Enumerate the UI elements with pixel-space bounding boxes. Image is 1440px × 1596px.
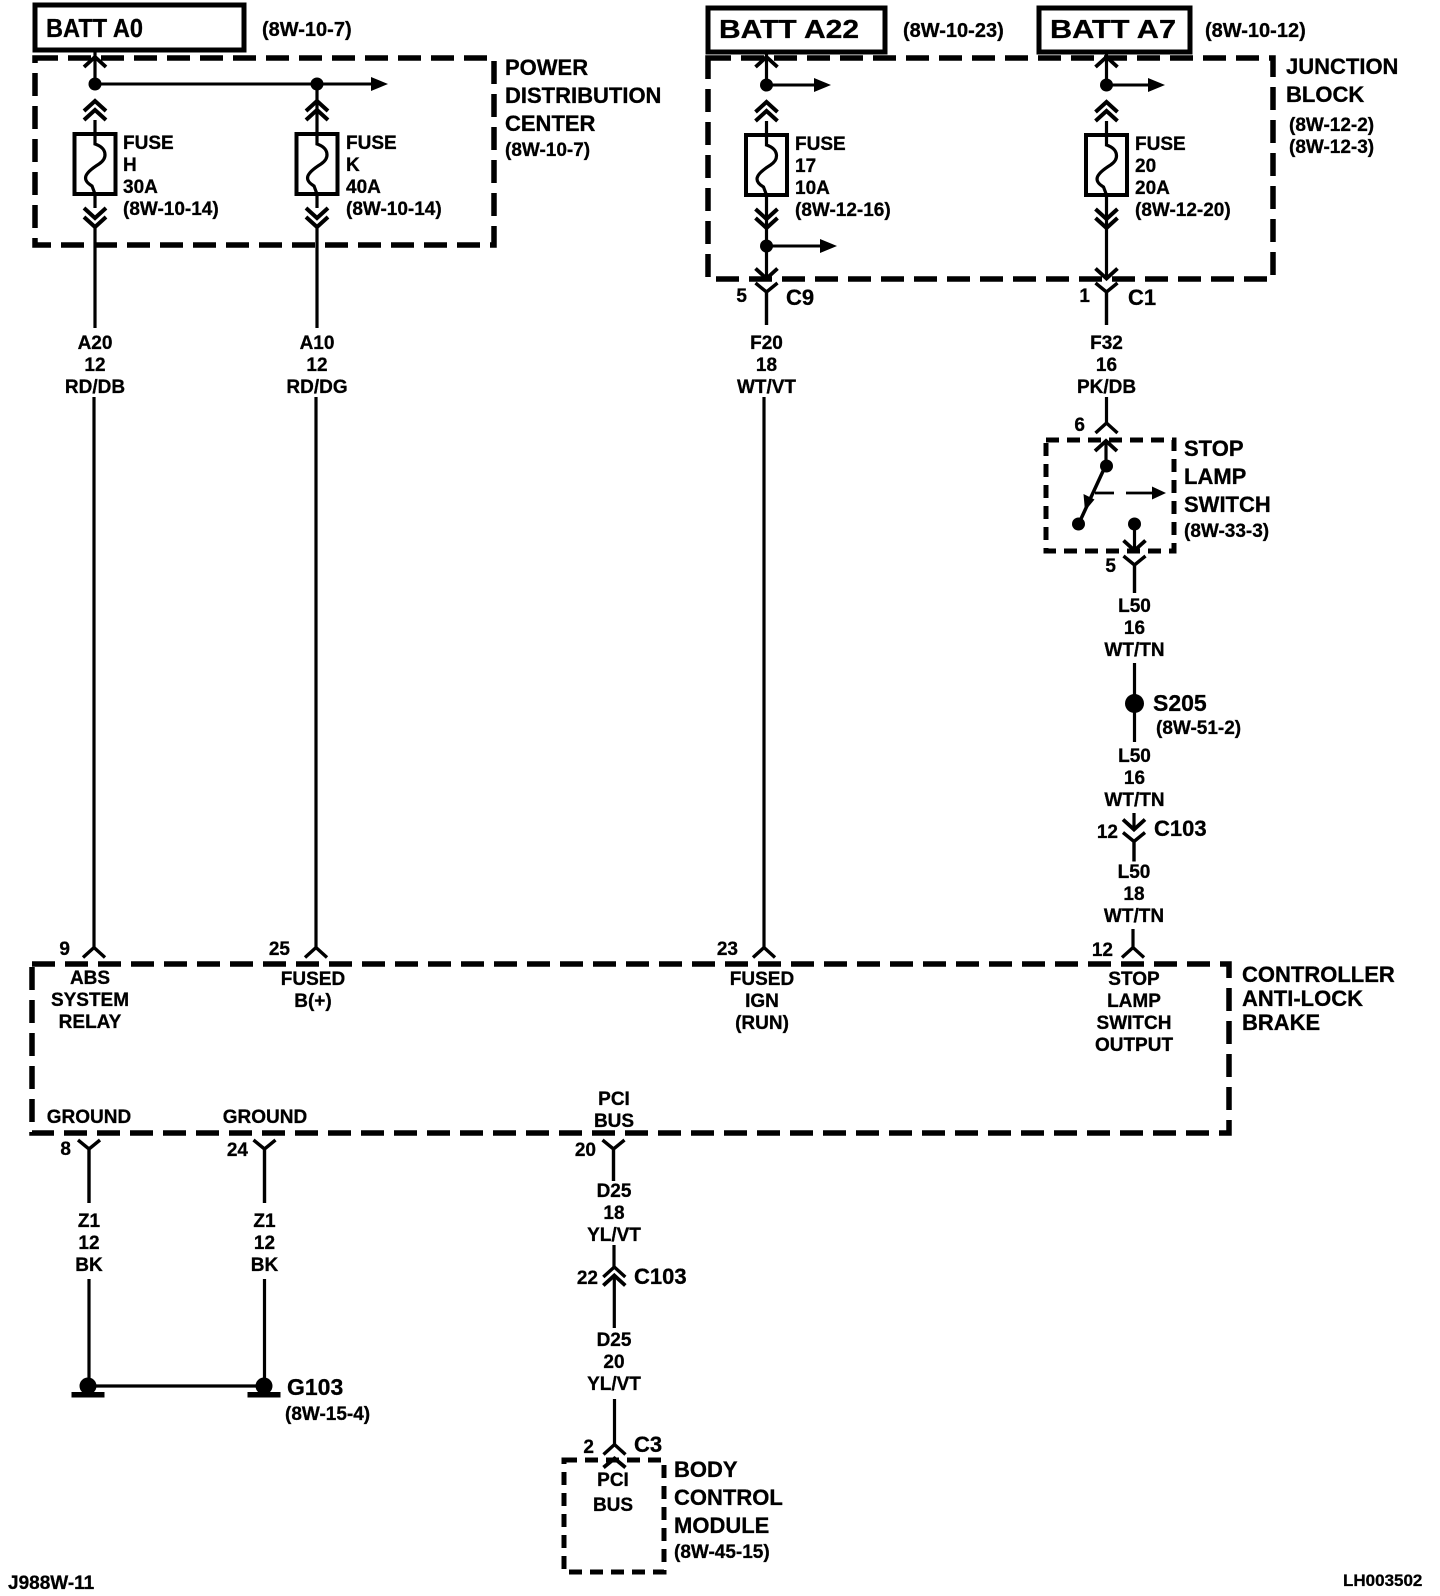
- wire D25 to connector C103 pin 22: [612, 1245, 615, 1268]
- ground symbol left at G103: [72, 1378, 105, 1398]
- svg-text:STOP: STOP: [1184, 436, 1244, 461]
- power feed box BATT A22: [708, 8, 885, 52]
- wire from output contact to switch bottom edge: [1133, 524, 1136, 550]
- svg-text:PK/DB: PK/DB: [1077, 377, 1136, 398]
- pin number 5 below switch: [1105, 556, 1116, 577]
- svg-text:CONTROLLER: CONTROLLER: [1242, 962, 1395, 987]
- wire label L50 16 WT/TN (upper): [1104, 596, 1164, 661]
- svg-text:18: 18: [756, 355, 777, 376]
- pin number 24: [227, 1140, 249, 1161]
- node: PDC feed junction dot at fuse H: [89, 78, 102, 91]
- pin number 12 at C103: [1097, 822, 1118, 843]
- svg-text:SYSTEM: SYSTEM: [51, 990, 129, 1011]
- svg-text:BK: BK: [251, 1255, 279, 1276]
- svg-text:5: 5: [1105, 556, 1116, 577]
- svg-text:8: 8: [60, 1139, 71, 1160]
- ground wire Z1 from pin 24: [263, 1279, 266, 1379]
- svg-text:D25: D25: [597, 1181, 632, 1202]
- svg-text:A10: A10: [300, 333, 335, 354]
- ground designator G103: [287, 1374, 343, 1400]
- power feed box BATT A7: [1039, 8, 1190, 52]
- node: junction dot above fuse 17: [760, 79, 773, 92]
- svg-text:RD/DG: RD/DG: [286, 377, 347, 398]
- wire label D25 20 YL/VT: [587, 1330, 641, 1395]
- female connector half below switch pin 5: [1124, 556, 1146, 593]
- female connector half C1 pin 1: [1096, 283, 1118, 325]
- svg-text:PCI: PCI: [598, 1089, 630, 1110]
- pin number 2: [583, 1437, 594, 1458]
- svg-text:16: 16: [1124, 768, 1145, 789]
- sheet code LH003502: [1343, 1571, 1422, 1590]
- wire: PDC internal bus to fuse K with arrow: [95, 77, 388, 91]
- female connector half at switch pin 6: [1096, 423, 1118, 433]
- svg-text:WT/TN: WT/TN: [1104, 640, 1164, 661]
- svg-text:(8W-10-7): (8W-10-7): [505, 140, 590, 161]
- reference label (8W-10-23): [903, 20, 1004, 42]
- male connector at switch top edge: [1095, 441, 1117, 451]
- node: PDC junction dot at fuse K: [311, 78, 324, 91]
- wire A20 to controller pin 9: [92, 397, 95, 948]
- svg-text:BATT A7: BATT A7: [1050, 14, 1176, 44]
- svg-text:WT/TN: WT/TN: [1104, 906, 1164, 927]
- connector chevrons below fuse H: [84, 208, 106, 227]
- reference label (8W-10-7) for BATT A0: [262, 19, 352, 41]
- connector designator C1: [1128, 285, 1156, 310]
- pin function label GROUND (pin 8): [47, 1107, 131, 1128]
- wire label L50 18 WT/TN (lower): [1104, 862, 1164, 927]
- pin function label GROUND (pin 24): [223, 1107, 307, 1128]
- body control module dashed box: [564, 1460, 664, 1572]
- wire A10 to controller pin 25: [314, 397, 317, 948]
- wire below fuse 20: [1105, 195, 1108, 278]
- pin number 9: [59, 939, 70, 960]
- wire into connector C103 (pin 12): [1132, 813, 1135, 829]
- wire label Z1 12 BK (pin 8): [75, 1211, 103, 1276]
- female connector half C103 pin 12: [1123, 833, 1145, 862]
- female connector at controller pin 23: [753, 948, 775, 958]
- svg-text:F20: F20: [750, 333, 783, 354]
- svg-text:C103: C103: [1154, 816, 1207, 841]
- svg-text:17: 17: [795, 156, 816, 177]
- svg-text:C1: C1: [1128, 285, 1156, 310]
- title STOP LAMP SWITCH (8W-33-3): [1184, 436, 1271, 542]
- svg-text:DISTRIBUTION: DISTRIBUTION: [505, 83, 661, 108]
- sheet number J988W-11: [8, 1573, 95, 1594]
- wire label Z1 12 BK (pin 24): [251, 1211, 279, 1276]
- svg-text:BODY: BODY: [674, 1457, 738, 1482]
- wire label F20 18 WT/VT: [737, 333, 796, 398]
- svg-text:BLOCK: BLOCK: [1286, 82, 1364, 107]
- svg-text:20A: 20A: [1135, 178, 1170, 199]
- wire label A10 12 RD/DG: [286, 333, 347, 398]
- svg-text:Z1: Z1: [78, 1211, 101, 1232]
- switch blade arrowhead: [1084, 494, 1095, 511]
- female connector at controller pin 8: [78, 1140, 100, 1203]
- male connector at junction block top edge (A7): [1096, 57, 1118, 67]
- svg-text:(8W-12-16): (8W-12-16): [795, 200, 891, 221]
- connector chevrons below fuse 17: [756, 209, 778, 228]
- svg-text:L50: L50: [1118, 746, 1151, 767]
- svg-text:12: 12: [306, 355, 327, 376]
- svg-text:FUSE: FUSE: [795, 134, 846, 155]
- svg-text:20: 20: [1135, 156, 1156, 177]
- wire into fuse 17: [765, 121, 768, 135]
- svg-text:GROUND: GROUND: [223, 1107, 307, 1128]
- svg-text:F32: F32: [1090, 333, 1123, 354]
- svg-text:STOP: STOP: [1108, 969, 1160, 990]
- switch actuation dashed arrow: [1095, 487, 1166, 500]
- power distribution center dashed box: [35, 58, 494, 245]
- svg-text:18: 18: [1123, 884, 1144, 905]
- svg-text:30A: 30A: [123, 177, 158, 198]
- svg-text:BATT A22: BATT A22: [719, 14, 859, 44]
- wire D25 to body control module: [613, 1399, 616, 1445]
- svg-text:K: K: [346, 155, 360, 176]
- value label FUSE 17 10A (8W-12-16): [795, 134, 891, 221]
- connector designator C3: [634, 1432, 662, 1457]
- svg-text:GROUND: GROUND: [47, 1107, 131, 1128]
- svg-text:5: 5: [736, 286, 747, 307]
- wire F20 to controller pin 23: [762, 397, 765, 948]
- svg-text:12: 12: [1092, 940, 1113, 961]
- svg-text:(8W-33-3): (8W-33-3): [1184, 521, 1269, 542]
- svg-text:G103: G103: [287, 1374, 343, 1400]
- wire below S205: [1133, 712, 1136, 742]
- pin number 12 at controller: [1092, 940, 1113, 961]
- node: junction dot below fuse 17: [760, 240, 773, 253]
- wire L50 to controller pin 12: [1131, 929, 1134, 948]
- connector chevrons below fuse 20: [1096, 209, 1118, 228]
- fuse 20 20A: [1086, 135, 1127, 195]
- connector chevrons above fuse 17: [756, 102, 778, 121]
- svg-text:D25: D25: [597, 1330, 632, 1351]
- branch arrow from A7 feed: [1107, 78, 1166, 92]
- power feed box BATT A0: [35, 5, 244, 50]
- fuse H 30A: [75, 134, 116, 194]
- svg-text:MODULE: MODULE: [674, 1513, 769, 1538]
- svg-text:(8W-51-2): (8W-51-2): [1156, 718, 1241, 739]
- wire into fuse K: [315, 84, 318, 134]
- switch lower contact dot: [1072, 518, 1085, 531]
- branch arrow from A22 feed: [767, 78, 832, 92]
- pin function label FUSED B(+): [281, 969, 345, 1012]
- male connector at PDC top edge: [84, 57, 106, 67]
- connector chevrons below fuse K: [306, 208, 328, 227]
- wire into fuse H: [93, 120, 96, 134]
- connector designator C9: [786, 285, 814, 310]
- svg-text:12: 12: [84, 355, 105, 376]
- connector chevrons above fuse H: [84, 101, 106, 120]
- svg-text:12: 12: [1097, 822, 1118, 843]
- svg-text:A20: A20: [78, 333, 113, 354]
- svg-text:(8W-45-15): (8W-45-15): [674, 1542, 770, 1563]
- female connector at controller pin 20: [603, 1140, 625, 1181]
- wire from BATT A7 into junction block: [1105, 52, 1108, 85]
- svg-text:LAMP: LAMP: [1107, 991, 1161, 1012]
- female connector half at BCM pin 2: [604, 1445, 626, 1455]
- svg-text:BUS: BUS: [593, 1495, 633, 1516]
- svg-text:LH003502: LH003502: [1343, 1571, 1422, 1590]
- male connector half at switch bottom edge pin 5: [1124, 541, 1146, 551]
- net label PCI BUS inside BCM: [593, 1470, 633, 1516]
- svg-text:RELAY: RELAY: [59, 1012, 122, 1033]
- female connector at controller pin 9: [83, 948, 105, 958]
- svg-text:23: 23: [717, 939, 738, 960]
- svg-text:B(+): B(+): [294, 991, 331, 1012]
- title POWER DISTRIBUTION CENTER (8W-10-7): [505, 55, 661, 161]
- pin number 25: [269, 939, 291, 960]
- svg-text:POWER: POWER: [505, 55, 588, 80]
- switch pivot contact dot: [1100, 460, 1113, 473]
- svg-text:9: 9: [59, 939, 70, 960]
- reference label (8W-10-12): [1205, 20, 1306, 42]
- svg-text:(8W-12-3): (8W-12-3): [1289, 137, 1374, 158]
- svg-text:12: 12: [254, 1233, 275, 1254]
- svg-text:(8W-10-12): (8W-10-12): [1205, 20, 1306, 42]
- svg-text:1: 1: [1079, 286, 1090, 307]
- svg-text:22: 22: [577, 1268, 598, 1289]
- svg-text:Z1: Z1: [253, 1211, 276, 1232]
- svg-text:25: 25: [269, 939, 291, 960]
- svg-text:CONTROL: CONTROL: [674, 1485, 783, 1510]
- pin function label ABS SYSTEM RELAY: [51, 968, 129, 1033]
- branch arrow below fuse 17: [767, 239, 838, 253]
- wire from BATT A22 into junction block: [765, 52, 768, 85]
- svg-text:40A: 40A: [346, 177, 381, 198]
- svg-text:FUSED: FUSED: [281, 969, 345, 990]
- pin function label FUSED IGN (RUN): [730, 969, 794, 1034]
- female connector at controller pin 12: [1122, 948, 1144, 958]
- pin number 23: [717, 939, 738, 960]
- pin number 8: [60, 1139, 71, 1160]
- male connector at BCM top edge: [604, 1459, 626, 1468]
- splice S205: [1125, 694, 1144, 713]
- svg-text:H: H: [123, 155, 137, 176]
- ground wire Z1 from pin 8: [87, 1279, 90, 1379]
- svg-text:16: 16: [1124, 618, 1145, 639]
- reference label (8W-15-4): [285, 1404, 370, 1425]
- svg-text:RD/DB: RD/DB: [65, 377, 125, 398]
- svg-text:BUS: BUS: [594, 1111, 634, 1132]
- value label FUSE H 30A (8W-10-14): [123, 133, 219, 220]
- svg-text:PCI: PCI: [597, 1470, 629, 1491]
- title CONTROLLER ANTI-LOCK BRAKE: [1242, 962, 1395, 1035]
- male connector half C103 pin 12: [1123, 820, 1145, 830]
- svg-text:S205: S205: [1153, 690, 1207, 716]
- svg-text:C3: C3: [634, 1432, 662, 1457]
- female connector half C103 pin 22: [603, 1267, 625, 1277]
- ground symbol right at G103: [248, 1378, 281, 1398]
- node: junction dot above fuse 20: [1100, 79, 1113, 92]
- value label FUSE K 40A (8W-10-14): [346, 133, 442, 220]
- svg-text:BRAKE: BRAKE: [1242, 1010, 1320, 1035]
- svg-text:10A: 10A: [795, 178, 830, 199]
- wire below fuse K: [315, 194, 318, 208]
- svg-text:(8W-10-7): (8W-10-7): [262, 19, 352, 41]
- male connector half C103 pin 22: [603, 1276, 625, 1286]
- svg-text:6: 6: [1074, 415, 1085, 436]
- pin number 5 at C9: [736, 286, 747, 307]
- svg-text:FUSE: FUSE: [123, 133, 174, 154]
- fuse 17 10A: [746, 135, 787, 195]
- svg-text:IGN: IGN: [745, 991, 779, 1012]
- male connector half at junction block bottom edge C1: [1096, 269, 1118, 279]
- svg-text:CENTER: CENTER: [505, 111, 596, 136]
- svg-text:L50: L50: [1118, 596, 1151, 617]
- value label FUSE 20 20A (8W-12-20): [1135, 134, 1231, 221]
- svg-text:SWITCH: SWITCH: [1184, 492, 1271, 517]
- svg-text:(8W-12-20): (8W-12-20): [1135, 200, 1231, 221]
- controller anti-lock brake dashed box: [32, 964, 1229, 1133]
- stop lamp switch dashed box: [1046, 440, 1174, 551]
- svg-text:YL/VT: YL/VT: [587, 1225, 641, 1246]
- male connector half at junction block bottom edge C9: [756, 269, 778, 279]
- svg-text:24: 24: [227, 1140, 249, 1161]
- svg-text:ANTI-LOCK: ANTI-LOCK: [1242, 986, 1363, 1011]
- svg-text:LAMP: LAMP: [1184, 464, 1246, 489]
- switch output contact dot: [1128, 518, 1141, 531]
- reference label (8W-51-2): [1156, 718, 1241, 739]
- pin function label PCI BUS: [594, 1089, 634, 1132]
- wire label F32 16 PK/DB: [1077, 333, 1136, 398]
- connector chevrons above fuse K: [306, 101, 328, 120]
- wire A20 upper segment through PDC bottom edge: [93, 227, 96, 328]
- svg-text:(8W-10-14): (8W-10-14): [123, 199, 219, 220]
- svg-text:(8W-10-14): (8W-10-14): [346, 199, 442, 220]
- female connector at controller pin 24: [254, 1140, 276, 1203]
- svg-text:16: 16: [1096, 355, 1117, 376]
- title BODY CONTROL MODULE (8W-45-15): [674, 1457, 783, 1563]
- wire L50 to splice S205: [1133, 663, 1136, 696]
- male connector at junction block top edge (A22): [756, 57, 778, 67]
- wire below fuse 17: [765, 195, 768, 240]
- pin number 22: [577, 1268, 598, 1289]
- splice designator S205: [1153, 690, 1207, 716]
- svg-text:L50: L50: [1118, 862, 1151, 883]
- wire F32 to stop lamp switch: [1105, 397, 1108, 423]
- svg-text:FUSE: FUSE: [1135, 134, 1186, 155]
- wire below C103 pin 22: [613, 1276, 616, 1329]
- svg-text:J988W-11: J988W-11: [8, 1573, 95, 1594]
- svg-text:C9: C9: [786, 285, 814, 310]
- wire into switch pin 6: [1104, 441, 1107, 462]
- svg-text:WT/TN: WT/TN: [1104, 790, 1164, 811]
- connector chevrons above fuse 20: [1096, 102, 1118, 121]
- svg-text:FUSE: FUSE: [346, 133, 397, 154]
- wire from BATT A0 into PDC: [93, 50, 96, 84]
- wire below fuse H: [93, 194, 96, 208]
- svg-text:ABS: ABS: [70, 968, 110, 989]
- svg-text:BATT A0: BATT A0: [46, 13, 143, 43]
- wire label L50 16 WT/TN (middle): [1104, 746, 1164, 811]
- title JUNCTION BLOCK (8W-12-2) (8W-12-3): [1286, 54, 1398, 158]
- wire joining ground points: [88, 1384, 264, 1387]
- switch blade: [1080, 469, 1104, 521]
- svg-text:OUTPUT: OUTPUT: [1095, 1035, 1174, 1056]
- wire to connector C9: [765, 246, 768, 278]
- female connector half C9 pin 5: [756, 283, 778, 325]
- svg-text:20: 20: [575, 1140, 596, 1161]
- junction block dashed box: [708, 58, 1273, 279]
- pin number 20: [575, 1140, 596, 1161]
- female connector at controller pin 25: [305, 948, 327, 958]
- svg-text:20: 20: [603, 1352, 624, 1373]
- svg-text:JUNCTION: JUNCTION: [1286, 54, 1398, 79]
- svg-text:SWITCH: SWITCH: [1097, 1013, 1172, 1034]
- svg-text:(8W-10-23): (8W-10-23): [903, 20, 1004, 42]
- svg-text:2: 2: [583, 1437, 594, 1458]
- svg-text:BK: BK: [75, 1255, 103, 1276]
- svg-text:18: 18: [603, 1203, 624, 1224]
- svg-text:C103: C103: [634, 1264, 687, 1289]
- svg-text:FUSED: FUSED: [730, 969, 794, 990]
- wire label D25 18 YL/VT: [587, 1181, 641, 1246]
- wire label A20 12 RD/DB: [65, 333, 125, 398]
- svg-text:YL/VT: YL/VT: [587, 1374, 641, 1395]
- connector designator C103: [1154, 816, 1207, 841]
- pin number 6: [1074, 415, 1085, 436]
- connector designator C103 (lower): [634, 1264, 687, 1289]
- wire A10 upper segment through PDC bottom edge: [315, 227, 318, 328]
- svg-text:(RUN): (RUN): [735, 1013, 789, 1034]
- svg-text:(8W-15-4): (8W-15-4): [285, 1404, 370, 1425]
- svg-text:WT/VT: WT/VT: [737, 377, 796, 398]
- wire into fuse 20: [1105, 121, 1108, 135]
- svg-text:(8W-12-2): (8W-12-2): [1289, 115, 1374, 136]
- svg-text:12: 12: [78, 1233, 99, 1254]
- fuse K 40A: [297, 134, 338, 194]
- pin function label STOP LAMP SWITCH OUTPUT: [1095, 969, 1174, 1056]
- pin number 1 at C1: [1079, 286, 1090, 307]
